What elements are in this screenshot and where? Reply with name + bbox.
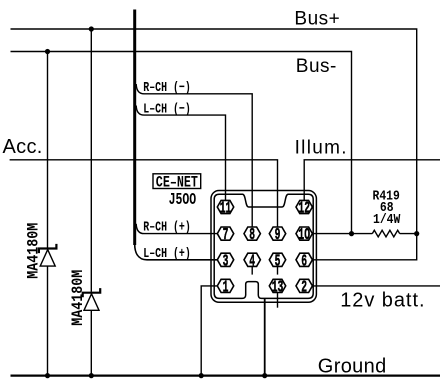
svg-text:12v batt.: 12v batt. <box>340 290 425 312</box>
svg-text:MA4180M: MA4180M <box>25 223 42 279</box>
svg-text:Acc.: Acc. <box>3 136 43 158</box>
svg-text:CE–NET: CE–NET <box>156 174 198 192</box>
svg-text:4: 4 <box>249 253 255 271</box>
svg-text:12: 12 <box>298 200 310 218</box>
svg-text:9: 9 <box>275 227 281 245</box>
svg-text:6: 6 <box>301 253 307 271</box>
svg-text:L–CH (+): L–CH (+) <box>143 246 190 262</box>
svg-text:L–CH (−): L–CH (−) <box>143 101 190 117</box>
svg-text:8: 8 <box>249 227 255 245</box>
svg-text:Bus-: Bus- <box>296 56 337 77</box>
svg-text:5: 5 <box>275 253 281 271</box>
svg-text:3: 3 <box>223 253 229 271</box>
svg-text:R–CH (−): R–CH (−) <box>143 80 190 96</box>
svg-text:11: 11 <box>220 200 232 218</box>
svg-text:Illum.: Illum. <box>295 138 348 159</box>
svg-text:MA4180M: MA4180M <box>70 270 87 326</box>
svg-text:R–CH (+): R–CH (+) <box>143 219 190 235</box>
svg-text:1: 1 <box>223 279 229 297</box>
svg-text:Bus+: Bus+ <box>294 9 340 30</box>
svg-text:J5OO: J5OO <box>169 191 197 210</box>
svg-text:13: 13 <box>272 279 284 297</box>
svg-text:Ground: Ground <box>318 356 387 378</box>
svg-text:7: 7 <box>223 227 229 245</box>
svg-text:1/4W: 1/4W <box>373 211 401 227</box>
svg-text:1O: 1O <box>298 227 310 245</box>
svg-text:2: 2 <box>301 279 307 297</box>
